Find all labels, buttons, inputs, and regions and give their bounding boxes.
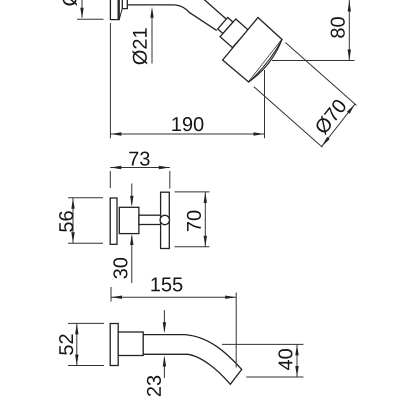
flange F1 (shower arm escutcheon) (110, 0, 122, 20)
valve flange (110, 198, 117, 244)
dim 190 line (110, 132, 264, 135)
dim &#216;21 label (132, 28, 147, 64)
dim 52 ext top (68, 322, 104, 324)
dim 52 label (59, 334, 73, 354)
dim 23 arrow upper (163, 310, 166, 333)
flange step (122, 0, 127, 9)
dim 30 arrow lower (130, 234, 133, 283)
head adapter (220, 19, 248, 48)
dim flange diameter arrow (80, 0, 83, 19)
dim 56 line (71, 198, 74, 243)
head face lens (249, 40, 282, 83)
dim 23 arrow lower (163, 356, 166, 379)
valve stem (139, 215, 161, 224)
dim 190 ext left (109, 23, 111, 138)
dim 73 label (129, 152, 149, 166)
dim 190 ext right (264, 70, 266, 138)
dim 70 ext bottom (175, 246, 210, 248)
spout base (118, 332, 143, 356)
dim 80 label (331, 17, 345, 38)
dim 70 line (204, 192, 207, 247)
dim 56 label (59, 211, 73, 232)
shower arm (bent tube) (127, 0, 228, 31)
dim 56 ext top (68, 197, 103, 199)
dim 30 label (113, 258, 127, 279)
dim 80 ext bottom (272, 60, 355, 62)
dim 155 label (151, 278, 182, 292)
dim 30 arrow upper (130, 184, 133, 207)
valve body (119, 207, 139, 233)
arm nut (218, 18, 233, 34)
dim 190 label (172, 117, 203, 131)
spout tube (143, 335, 242, 385)
dim &#216;70 ext line upper (285, 43, 356, 106)
dim flange ext line (77, 18, 104, 20)
dim 73 line (110, 166, 170, 169)
dim 23 label (147, 376, 161, 396)
dim 70 ext top (175, 191, 210, 193)
dim 80 line (348, 0, 351, 61)
dim 56 ext bottom (68, 242, 103, 244)
dim 40 ext top (222, 343, 304, 345)
dim 40 ext bottom (246, 376, 303, 378)
handle hub circle (160, 215, 169, 224)
dim 40 line (295, 344, 298, 377)
dim 73 ext left (109, 171, 111, 188)
dim &#216;70 ext line lower (254, 87, 323, 148)
dim &#216;70 line (322, 104, 355, 147)
dim 52 ext bottom (68, 365, 104, 367)
dim 70 label (187, 211, 201, 231)
spout flange (110, 324, 118, 366)
dim 155 ext left (110, 287, 112, 302)
dim 155 ext right (235, 293, 237, 368)
shower head body (223, 18, 282, 83)
dim flange diameter label (62, 0, 77, 6)
dim &#216;70 label (313, 98, 347, 136)
dim 52 line (75, 323, 78, 365)
dim &#216;21 arrow (150, 7, 153, 64)
dim 40 label (278, 349, 292, 370)
valve handle bar (161, 192, 170, 248)
dim 155 line (111, 296, 236, 299)
dim 73 ext right (169, 171, 171, 189)
